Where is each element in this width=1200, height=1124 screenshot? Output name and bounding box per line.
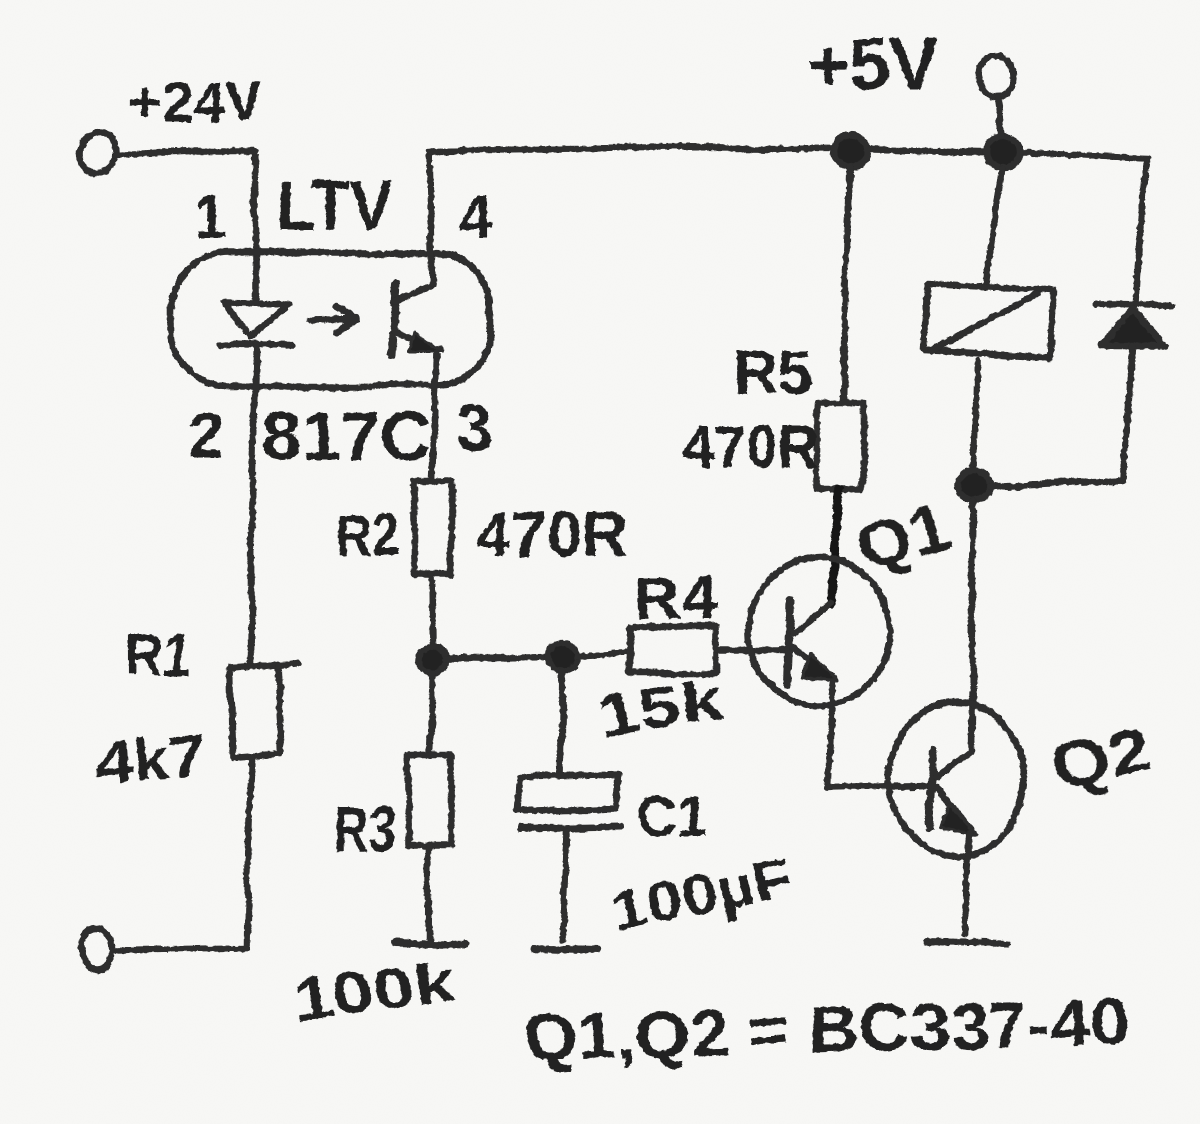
- wire C1 to ground: [563, 830, 566, 940]
- svg-text:3: 3: [456, 390, 493, 464]
- wire pin3 down to R2: [432, 353, 436, 481]
- Q1 base bar: [788, 600, 791, 684]
- junction top-left of R5: [834, 135, 868, 167]
- svg-text:2: 2: [188, 400, 224, 472]
- ground under R3: [394, 942, 466, 944]
- ground under C1: [534, 948, 597, 950]
- wire R2 down to junction: [431, 576, 432, 645]
- wire junction down to Q2 collector: [971, 500, 974, 750]
- svg-text:+5V: +5V: [806, 23, 939, 106]
- phototransistor base bar: [391, 283, 396, 355]
- Q1 collector stroke: [793, 603, 831, 634]
- wire Q1 emitter to Q2 base: [827, 786, 931, 788]
- wire pin2 down to R1: [251, 344, 257, 666]
- wire relay to junction: [975, 360, 977, 470]
- resistor R3: [408, 755, 451, 846]
- Q1 emitter stroke: [792, 646, 835, 676]
- ground under Q2: [926, 942, 1007, 944]
- svg-text:470R: 470R: [477, 498, 627, 570]
- svg-text:R5: R5: [733, 339, 812, 408]
- wire node down to C1: [561, 671, 563, 775]
- R1 top overshoot: [278, 663, 297, 666]
- wire rail down to R5: [843, 167, 850, 403]
- optocoupler U1 package: [171, 252, 491, 386]
- svg-text:4: 4: [459, 185, 493, 252]
- transistor Q1 circle: [748, 559, 890, 705]
- wire diode down and left to junction: [991, 346, 1131, 486]
- svg-text:+24V: +24V: [129, 69, 263, 134]
- wire R1 to bottom terminal: [247, 757, 252, 949]
- capacitor C1 top plate: [516, 774, 619, 811]
- Q2 base bar: [929, 748, 934, 828]
- svg-text:R1: R1: [126, 623, 192, 688]
- terminal +24V: [79, 132, 117, 172]
- phototransistor emitter arrowhead: [408, 332, 442, 352]
- wire R5 to Q1 collector: [832, 489, 841, 604]
- svg-text:R3: R3: [334, 795, 396, 864]
- svg-text:4k7: 4k7: [92, 722, 210, 799]
- relay K1 coil: [924, 284, 1054, 358]
- wire pin4 up: [429, 150, 432, 282]
- wire +5V circle to rail: [997, 98, 1002, 135]
- junction C1/R4 node: [548, 643, 580, 671]
- Q2 emitter stroke: [937, 788, 970, 828]
- capacitor C1 bottom plate: [520, 826, 621, 828]
- svg-text:C1: C1: [639, 784, 707, 849]
- junction relay/diode/Q2: [959, 471, 991, 499]
- +5V terminal circle: [978, 56, 1014, 98]
- resistor R2: [413, 481, 452, 576]
- wire node down to R3: [430, 671, 433, 755]
- svg-text:817C: 817C: [263, 397, 430, 475]
- transistor Q2 circle: [890, 701, 1024, 857]
- wire rail down to relay: [986, 170, 1002, 288]
- resistor R5: [818, 403, 863, 489]
- junction R2/R3 node: [419, 645, 447, 671]
- wire terminal to R1 leg: [113, 949, 247, 951]
- wire node to C1 node: [447, 657, 549, 658]
- LED of optocoupler: [224, 303, 288, 338]
- diode D1: [1101, 310, 1165, 346]
- junction +5V feed: [986, 136, 1020, 168]
- wire node to R4: [580, 653, 629, 656]
- wire Q1 emitter down: [827, 680, 834, 788]
- terminal 0V: [81, 927, 113, 969]
- svg-text:R4: R4: [634, 562, 717, 634]
- wire R3 to ground: [428, 846, 429, 938]
- diode D1 cathode bar: [1096, 305, 1171, 306]
- Q1 emitter arrowhead: [803, 653, 839, 679]
- wire Q2 emitter to ground: [964, 832, 969, 935]
- svg-text:470R: 470R: [682, 413, 820, 482]
- resistor R1: [231, 665, 281, 757]
- svg-text:R2: R2: [337, 501, 399, 570]
- Q2 emitter arrowhead: [940, 805, 976, 834]
- relay diagonal: [931, 294, 1038, 351]
- Q2 collector stroke: [936, 749, 972, 778]
- resistor R4: [629, 628, 717, 673]
- wire rail corner down to diode: [1136, 160, 1147, 303]
- svg-text:1: 1: [194, 183, 227, 250]
- svg-text:LTV: LTV: [277, 166, 392, 246]
- wire +24V to pin1: [117, 151, 256, 299]
- svg-text:Q1,Q2 = BC337-40: Q1,Q2 = BC337-40: [522, 984, 1129, 1074]
- phototransistor collector: [394, 284, 431, 301]
- arrow inside optocoupler: [309, 308, 356, 332]
- LED cathode bar: [220, 345, 292, 346]
- wire R4 to Q1 base: [717, 647, 788, 654]
- phototransistor emitter: [393, 331, 440, 350]
- top wire +V rail: [429, 148, 1147, 158]
